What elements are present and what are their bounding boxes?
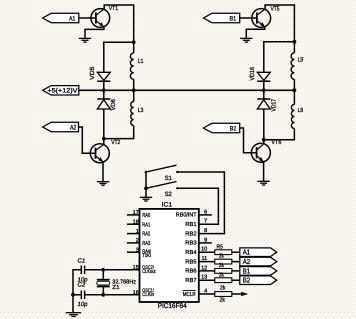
svg-text:10: 10	[201, 247, 207, 253]
svg-text:A1: A1	[243, 248, 250, 257]
svg-text:2k: 2k	[220, 284, 225, 291]
svg-text:VD6: VD6	[110, 98, 117, 110]
svg-text:L6: L6	[298, 107, 304, 114]
svg-text:A2: A2	[70, 124, 77, 131]
svg-text:11: 11	[201, 256, 207, 262]
svg-text:VT1: VT1	[109, 5, 119, 12]
svg-text:2k: 2k	[219, 271, 224, 278]
svg-text:L3: L3	[138, 107, 144, 114]
svg-text:2k: 2k	[219, 253, 224, 260]
svg-text:S1: S1	[165, 175, 173, 182]
svg-text:C2: C2	[78, 282, 86, 289]
svg-text:CLKout: CLKout	[142, 269, 156, 275]
svg-text:MCLR: MCLR	[183, 291, 196, 298]
svg-text:L5: L5	[298, 57, 304, 64]
svg-text:B1: B1	[230, 16, 237, 23]
svg-text:RA2: RA2	[142, 231, 150, 238]
svg-text:16: 16	[133, 290, 139, 296]
svg-text:PIC16F84: PIC16F84	[158, 303, 187, 310]
svg-text:8: 8	[204, 228, 207, 234]
svg-text:VD5: VD5	[89, 66, 96, 80]
svg-text:L1: L1	[138, 58, 144, 65]
svg-text:10p: 10p	[78, 301, 89, 308]
svg-text:C1: C1	[78, 258, 86, 265]
svg-text:S2: S2	[165, 191, 173, 198]
svg-text:VD16: VD16	[249, 66, 256, 80]
svg-text:9: 9	[204, 237, 207, 243]
svg-text:4: 4	[204, 289, 207, 295]
svg-text:CLKin: CLKin	[142, 292, 154, 298]
svg-text:RB2: RB2	[185, 230, 196, 237]
svg-text:2: 2	[136, 238, 139, 244]
svg-text:RB0/INT: RB0/INT	[176, 212, 197, 219]
svg-text:+5(+12)V: +5(+12)V	[47, 88, 78, 95]
svg-text:RB6: RB6	[185, 268, 196, 275]
svg-text:1: 1	[136, 229, 139, 235]
svg-text:A1: A1	[69, 15, 76, 22]
svg-text:18: 18	[133, 220, 139, 226]
svg-text:6: 6	[204, 209, 207, 215]
svg-text:RB1: RB1	[185, 222, 196, 228]
svg-text:RB3: RB3	[185, 240, 196, 247]
svg-text:RB7: RB7	[185, 278, 196, 284]
svg-text:VT6: VT6	[271, 139, 282, 146]
svg-text:RA3: RA3	[142, 240, 150, 247]
svg-text:B1: B1	[243, 266, 250, 275]
svg-text:13: 13	[201, 275, 207, 281]
svg-text:2k: 2k	[219, 262, 224, 269]
svg-text:IC1: IC1	[162, 201, 173, 208]
svg-text:RA0: RA0	[142, 212, 150, 219]
svg-text:B2: B2	[230, 125, 237, 132]
svg-text:VT2: VT2	[111, 139, 121, 146]
svg-text:RA1: RA1	[142, 222, 150, 228]
svg-text:12: 12	[201, 265, 207, 271]
svg-text:VD17: VD17	[271, 98, 278, 111]
svg-text:A2: A2	[243, 257, 250, 266]
svg-text:2k: 2k	[220, 296, 225, 303]
svg-text:7: 7	[204, 219, 207, 225]
svg-text:R5: R5	[217, 244, 223, 250]
svg-text:VT5: VT5	[271, 6, 281, 13]
svg-text:RB4: RB4	[185, 250, 197, 256]
svg-text:15: 15	[133, 265, 139, 271]
svg-text:17: 17	[133, 210, 139, 216]
svg-text:RB5: RB5	[185, 259, 196, 265]
svg-text:Z1: Z1	[112, 285, 119, 291]
svg-text:B2: B2	[243, 276, 250, 285]
svg-text:3: 3	[136, 248, 139, 254]
svg-text:T0KI: T0KI	[142, 253, 151, 259]
